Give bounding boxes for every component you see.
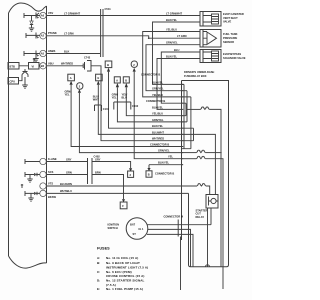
svg-text:INSTRUMENT LIGHT (7.5 A): INSTRUMENT LIGHT (7.5 A) <box>106 265 148 269</box>
svg-text:LT GRN/WHT: LT GRN/WHT <box>166 11 183 15</box>
connector C101 <box>95 105 110 111</box>
zener to ground pin1 <box>29 16 34 32</box>
svg-text:BAT: BAT <box>130 223 136 227</box>
pin HNBS <box>40 49 56 57</box>
svg-text:YEL: YEL <box>168 155 173 159</box>
svg-text:C742: C742 <box>84 55 91 59</box>
svg-text:(7.5 A): (7.5 A) <box>106 283 116 287</box>
EVAP bypass solenoid valve <box>200 50 246 63</box>
wire HNBS BLK <box>46 53 100 55</box>
svg-text:GRN/YEL: GRN/YEL <box>158 149 170 153</box>
svg-text:VENT SHUT: VENT SHUT <box>223 16 238 20</box>
svg-text:FUEL TANK: FUEL TANK <box>223 32 238 36</box>
fuse on GRN/YEL row <box>181 150 222 153</box>
svg-text:BLK/YEL: BLK/YEL <box>152 80 164 84</box>
svg-text:BKSW: BKSW <box>48 195 56 199</box>
svg-text:GRY: GRY <box>66 157 72 161</box>
svg-text:B:: B: <box>97 261 100 265</box>
svg-text:CONNECTOR B: CONNECTOR B <box>155 172 174 176</box>
connector M bars <box>178 220 181 291</box>
connector C742 <box>83 55 91 71</box>
wire BTB-VI-pin <box>19 65 40 67</box>
svg-text:SWITCH: SWITCH <box>108 226 118 230</box>
svg-text:SOLENOID VALVE: SOLENOID VALVE <box>223 56 246 60</box>
svg-text:LT GRN: LT GRN <box>64 32 74 36</box>
svg-text:BLK/YEL: BLK/YEL <box>166 18 178 22</box>
svg-text:VALVE: VALVE <box>223 20 232 24</box>
svg-text:BTB: BTB <box>10 64 15 68</box>
svg-text:PRESSURE: PRESSURE <box>223 36 238 40</box>
svg-text:YEL/BLU: YEL/BLU <box>152 93 163 97</box>
pin VTS <box>40 182 54 190</box>
svg-text:B: B <box>148 173 150 177</box>
VI box <box>29 58 40 69</box>
pin PTANK <box>40 31 57 39</box>
pin SCS <box>40 170 54 178</box>
wire PTANK LT GRN <box>46 36 200 38</box>
svg-text:EVAP/BYPASS: EVAP/BYPASS <box>223 52 241 56</box>
PCM right edge bus <box>46 6 48 263</box>
svg-text:GRY: GRY <box>95 157 101 161</box>
connector C102 <box>114 102 139 110</box>
EVAP canister vent shut valve <box>200 12 244 27</box>
svg-text:D:: D: <box>97 279 100 283</box>
wire BLK/YEL bypass <box>157 59 200 110</box>
svg-text:E: E <box>98 76 100 80</box>
svg-text:YEL: YEL <box>112 96 117 100</box>
wire BLK/YEL vent valve <box>153 22 201 84</box>
svg-text:GRN/YEL: GRN/YEL <box>166 41 178 45</box>
svg-text:B: B <box>125 79 127 83</box>
svg-text:GRN/YEL: GRN/YEL <box>152 87 164 91</box>
PCM/ECM module outline left <box>9 3 47 268</box>
internal driver pin3 <box>24 51 40 62</box>
wire VBU WHT/RED <box>46 65 83 67</box>
wire BRN to ref F <box>92 170 127 209</box>
svg-text:WHT: WHT <box>93 98 99 102</box>
svg-text:BLU: BLU <box>174 48 179 52</box>
ignition switch <box>108 218 148 240</box>
svg-text:WHT/BLU: WHT/BLU <box>60 189 72 193</box>
svg-text:SENSOR: SENSOR <box>223 40 234 44</box>
svg-text:WHT/RED: WHT/RED <box>61 62 73 66</box>
svg-text:BLK/YEL: BLK/YEL <box>152 124 164 128</box>
svg-text:E:: E: <box>97 287 100 291</box>
wire WHT/RED to fuse box <box>91 66 181 141</box>
svg-text:BLK: BLK <box>64 49 69 53</box>
svg-text:A6: A6 <box>41 14 45 18</box>
svg-text:VSV: VSV <box>48 11 53 15</box>
svg-text:YEL: YEL <box>65 93 70 97</box>
fuel tank pressure sensor <box>200 30 238 48</box>
svg-text:PTANK: PTANK <box>48 31 57 35</box>
wire BLU/WHT row to relay top <box>183 134 215 194</box>
BTB box <box>8 63 19 70</box>
svg-text:IGNITION: IGNITION <box>108 223 120 227</box>
svg-text:EVAP CANISTER: EVAP CANISTER <box>223 12 244 16</box>
svg-text:A: A <box>70 76 72 80</box>
svg-text:RELAY: RELAY <box>196 215 205 219</box>
fuse box interior combs <box>181 84 183 164</box>
svg-text:BLU/WHT: BLU/WHT <box>152 130 164 134</box>
svg-text:HNBS: HNBS <box>48 49 56 53</box>
ref round 2b <box>131 61 181 159</box>
fuse on YEL row <box>181 156 223 289</box>
pin VBU <box>40 62 54 70</box>
internal glyphs K-LINE/SCS rows <box>21 159 40 201</box>
CPU box <box>8 77 22 84</box>
wire VSV LT GRN/WHT <box>46 15 200 17</box>
PCM torn top edge <box>9 3 47 13</box>
svg-text:YEL/BLU: YEL/BLU <box>166 27 177 31</box>
svg-text:CPU: CPU <box>10 79 16 83</box>
svg-text:CONNECTOR B: CONNECTOR B <box>141 73 160 77</box>
svg-text:GRN: GRN <box>66 170 72 174</box>
ignition switch wires <box>148 224 212 226</box>
PCM left wall <box>8 13 10 256</box>
ref box pair GRN/YEL + YEL/BLU <box>112 77 181 122</box>
svg-text:C:: C: <box>97 270 100 274</box>
svg-text:C541: C541 <box>105 7 112 11</box>
svg-text:BRN: BRN <box>95 170 101 174</box>
svg-text:BLU: BLU <box>122 96 127 100</box>
wire GRY to ref 3 <box>92 157 134 177</box>
ref box B (BLK/YEL) <box>105 61 181 128</box>
svg-text:FUSES: FUSES <box>97 246 110 250</box>
svg-text:BLU/GRN: BLU/GRN <box>60 182 72 186</box>
svg-text:BLK/YEL: BLK/YEL <box>166 55 178 59</box>
svg-text:B2: B2 <box>41 64 45 68</box>
svg-text:VBU: VBU <box>48 62 54 66</box>
svg-text:CONNECTOR B: CONNECTOR B <box>146 99 165 103</box>
svg-text:C101: C101 <box>103 107 110 111</box>
svg-text:IG 1: IG 1 <box>139 227 144 231</box>
ground under transistor <box>22 77 28 88</box>
fuses legend <box>97 246 148 291</box>
wire YEL/BLU sensor <box>143 32 200 97</box>
svg-text:A2: A2 <box>41 34 45 38</box>
wire GRN/YEL sensor <box>146 45 200 91</box>
pin VSV <box>40 11 54 19</box>
svg-text:ST: ST <box>133 232 137 236</box>
svg-text:No. 11 IG COIL (15 A): No. 11 IG COIL (15 A) <box>106 256 138 260</box>
connector C541 <box>101 7 112 57</box>
pin K-LINE <box>40 157 57 165</box>
svg-text:A:: A: <box>97 256 100 260</box>
svg-text:CRUISE CONTROL (15 A): CRUISE CONTROL (15 A) <box>106 274 145 278</box>
svg-text:A: A <box>116 79 118 83</box>
svg-text:C102: C102 <box>132 104 139 108</box>
starter cut relay <box>196 195 219 267</box>
svg-text:A5: A5 <box>41 52 45 56</box>
ref box A (GRN/YEL) <box>65 74 182 146</box>
svg-text:CONNECTOR M: CONNECTOR M <box>164 215 184 219</box>
svg-text:YEL/BLU: YEL/BLU <box>152 112 163 116</box>
svg-text:LT GRN/WHT: LT GRN/WHT <box>64 11 81 15</box>
wire BLU bypass <box>161 52 200 103</box>
pin BKSW <box>40 190 57 199</box>
svg-text:VI: VI <box>32 64 35 68</box>
transistor under VBU <box>22 69 28 77</box>
svg-text:CONNECTOR B: CONNECTOR B <box>150 142 169 146</box>
svg-text:DRIVER'S UNDER-DASH: DRIVER'S UNDER-DASH <box>184 70 214 74</box>
ref box E (BLU/WHT) <box>93 74 183 134</box>
fuse on VTS row <box>197 184 210 195</box>
internal driver pin1 <box>24 13 40 19</box>
driver's under-dash fuse/relay box <box>182 70 229 267</box>
fuse on BLK/YEL row <box>187 107 221 267</box>
svg-text:K-LINE: K-LINE <box>48 157 57 161</box>
svg-text:No. 1 FUEL PUMP (15 A): No. 1 FUEL PUMP (15 A) <box>106 287 143 291</box>
svg-text:FUSE/RELAY BOX: FUSE/RELAY BOX <box>184 74 207 78</box>
svg-text:LT GRN: LT GRN <box>177 34 187 38</box>
svg-text:VTS: VTS <box>48 182 53 186</box>
ref box BLK/YEL left stub <box>146 165 183 178</box>
svg-text:GRN/YEL: GRN/YEL <box>152 118 164 122</box>
svg-text:SCS: SCS <box>48 170 54 174</box>
svg-text:B: B <box>107 63 109 67</box>
connector C402 <box>88 155 101 185</box>
PCM torn bottom edge <box>9 256 47 268</box>
internal driver pin2 <box>26 33 40 39</box>
svg-text:BLK/YEL: BLK/YEL <box>152 105 164 109</box>
svg-text:WHT/RED: WHT/RED <box>152 137 164 141</box>
svg-text:BLK/YEL: BLK/YEL <box>158 161 170 165</box>
ref round 2 <box>77 83 181 153</box>
